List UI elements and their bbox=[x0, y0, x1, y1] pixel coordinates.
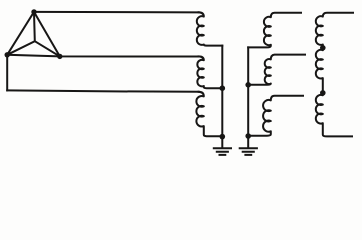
winding W2 (primary phase B) bbox=[197, 56, 222, 88]
node: secondary neutral / ground junction bbox=[245, 133, 251, 139]
winding W6 (secondary phase C) bbox=[248, 96, 303, 136]
wire: bottom phase wire to W3 bbox=[7, 90, 198, 91]
node: tap 1 on tertiary winding bbox=[320, 45, 326, 51]
node: W5 bottom junction on secondary neutral bus bbox=[245, 82, 251, 88]
wire: middle phase wire (delta bottom edge extended) to W2 bbox=[7, 55, 198, 57]
node: W2 bottom junction on primary neutral bus bbox=[220, 85, 226, 91]
winding W3 (primary phase C) bbox=[196, 92, 222, 136]
delta (three-phase source) triangle with inner Y bbox=[7, 12, 60, 57]
winding W4 (secondary phase A) bbox=[248, 13, 301, 48]
node: tap 2 on tertiary winding bbox=[320, 90, 326, 96]
winding W7 tertiary series winding with taps bbox=[316, 13, 353, 137]
ground: secondary neutral earth bbox=[240, 136, 257, 155]
winding W1 (primary phase A) bbox=[197, 12, 222, 45]
winding W5 (secondary phase B) bbox=[248, 55, 305, 85]
wire: top phase wire from delta top vertex to W1 bbox=[34, 11, 199, 14]
node: delta bottom-right vertex bbox=[57, 54, 62, 59]
wire: secondary neutral bus bbox=[247, 47, 249, 135]
ground: primary neutral earth bbox=[214, 137, 231, 155]
node: primary neutral / ground junction bbox=[220, 134, 226, 140]
wire: primary neutral bus bbox=[221, 46, 223, 137]
node: delta bottom-left vertex bbox=[5, 52, 10, 57]
node: delta top vertex bbox=[31, 9, 36, 14]
wire: left vertical drop from delta bottom-left vertex bbox=[6, 55, 8, 91]
